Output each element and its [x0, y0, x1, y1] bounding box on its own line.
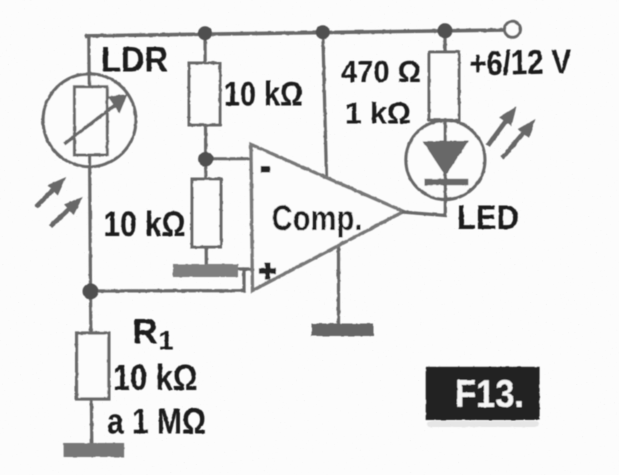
svg-text:R: R: [132, 312, 158, 352]
svg-text:10 kΩ: 10 kΩ: [104, 204, 186, 244]
svg-text:LDR: LDR: [101, 41, 168, 80]
svg-text:10 kΩ: 10 kΩ: [113, 357, 198, 398]
svg-text:1: 1: [159, 326, 174, 356]
svg-text:1 kΩ: 1 kΩ: [345, 97, 411, 131]
svg-text:10 kΩ: 10 kΩ: [224, 76, 303, 114]
svg-text:Comp.: Comp.: [272, 199, 363, 238]
svg-text:F13.: F13.: [455, 373, 524, 416]
svg-text:a 1 MΩ: a 1 MΩ: [107, 401, 206, 442]
svg-text:LED: LED: [457, 199, 519, 237]
svg-text:470 Ω: 470 Ω: [341, 55, 421, 89]
svg-text:+6/12 V: +6/12 V: [469, 43, 572, 83]
